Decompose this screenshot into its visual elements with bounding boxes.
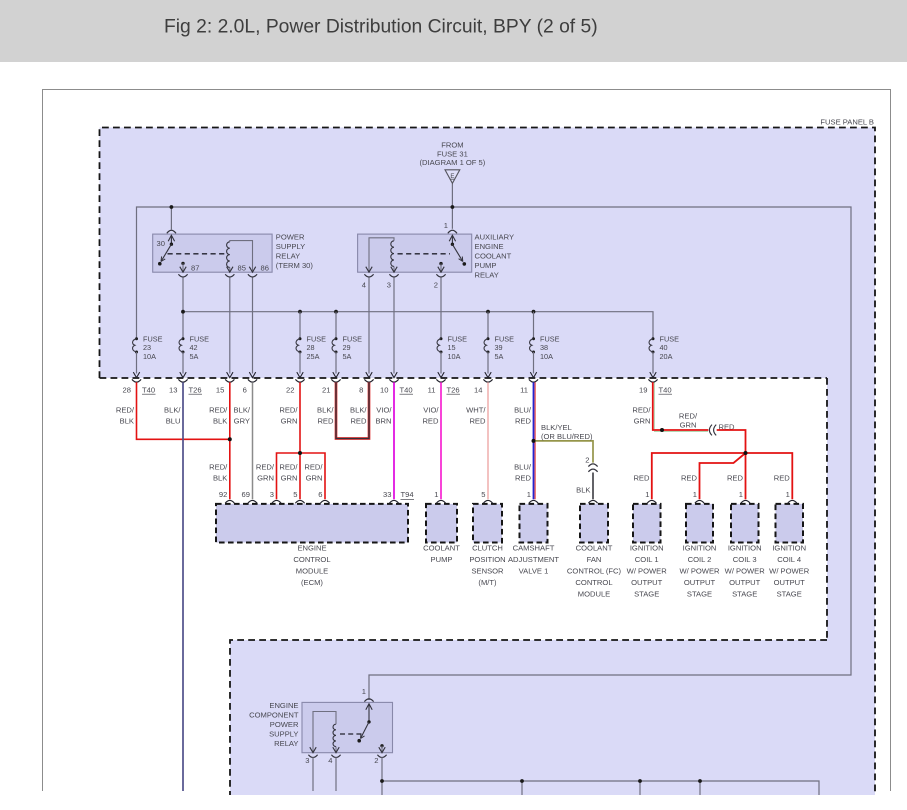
connector pin 14 [474, 372, 493, 394]
svg-text:RED: RED [317, 417, 334, 426]
wire: K2 pin 2 down to fuse 15 [440, 277, 442, 339]
svg-text:PUMP: PUMP [431, 555, 453, 564]
svg-text:6: 6 [318, 490, 322, 499]
svg-text:ENGINE: ENGINE [269, 701, 298, 710]
svg-text:FUSE: FUSE [143, 335, 163, 344]
svg-text:2: 2 [585, 455, 589, 464]
relay K1 switch blade [161, 244, 171, 261]
svg-text:IGNITION: IGNITION [772, 543, 806, 552]
connector pin 13 T26 [169, 372, 202, 394]
wire: fuse 29 feed from link [335, 312, 337, 339]
svg-text:10: 10 [380, 386, 388, 395]
relay K2 switch contact dot [463, 262, 467, 266]
svg-text:42: 42 [190, 343, 198, 352]
wire RED/GRN from pin 22 with splice to ECM pins 3 5 6 [256, 382, 325, 499]
svg-text:5A: 5A [343, 352, 352, 361]
relay K2 pin 1 connector arc [448, 230, 457, 233]
fuse panel B dashed border [100, 128, 876, 796]
svg-text:RED: RED [774, 473, 791, 482]
connector pin 21 [322, 372, 341, 394]
svg-text:SUPPLY: SUPPLY [276, 242, 305, 251]
svg-text:11: 11 [428, 386, 436, 395]
svg-text:RELAY: RELAY [274, 739, 298, 748]
svg-text:VIO/: VIO/ [423, 406, 439, 415]
wire: rail drop at x640 [639, 781, 641, 795]
svg-text:COMPONENT: COMPONENT [249, 711, 299, 720]
svg-text:85: 85 [238, 264, 246, 273]
svg-text:T94: T94 [401, 490, 414, 499]
fuse F42 5A [179, 335, 209, 374]
relay K2 pin 4 exit arrow [366, 267, 372, 273]
svg-text:T40: T40 [400, 386, 413, 395]
svg-text:RED: RED [681, 473, 698, 482]
svg-text:3: 3 [387, 281, 391, 290]
svg-text:5: 5 [481, 490, 485, 499]
svg-text:RED: RED [727, 473, 744, 482]
wire BLK/BLU from pin 13 down to page bottom [164, 382, 183, 791]
svg-text:30: 30 [157, 239, 165, 248]
svg-text:STAGE: STAGE [634, 589, 659, 598]
relay K1 pin 30 connector arc [167, 230, 176, 233]
svg-text:BLK/: BLK/ [317, 406, 334, 415]
svg-text:20A: 20A [660, 352, 673, 361]
relay K1 pin 85 exit arrow [227, 267, 233, 273]
svg-text:FUSE 31: FUSE 31 [437, 149, 468, 158]
svg-text:2: 2 [434, 281, 438, 290]
svg-text:COOLANT: COOLANT [423, 543, 460, 552]
svg-text:MODULE: MODULE [578, 589, 611, 598]
svg-text:11: 11 [520, 386, 528, 395]
connector pin 15 [216, 372, 235, 394]
svg-text:COIL 4: COIL 4 [777, 555, 801, 564]
svg-text:RED/: RED/ [279, 406, 298, 415]
wire: K1 pin 87 down through link row to fuse 42 [182, 277, 184, 339]
svg-text:10A: 10A [540, 352, 553, 361]
svg-text:OUTPUT: OUTPUT [729, 578, 761, 587]
svg-text:BLK: BLK [213, 417, 227, 426]
svg-text:BLU: BLU [166, 417, 181, 426]
svg-text:1: 1 [693, 490, 697, 499]
svg-text:RED/: RED/ [116, 406, 135, 415]
svg-text:10A: 10A [143, 352, 156, 361]
svg-text:W/ POWER: W/ POWER [725, 566, 766, 575]
svg-text:(ECM): (ECM) [301, 578, 323, 587]
inline connector on RED wire [709, 422, 735, 435]
fuse F15 10A [437, 335, 467, 374]
relay K1 pin 86 exit arrow [249, 267, 255, 273]
connector pin 10 T40 [380, 372, 413, 394]
svg-text:15: 15 [216, 386, 224, 395]
relay K3 pin 4 exit arrow [333, 747, 339, 753]
svg-text:GRN: GRN [257, 474, 274, 483]
fuse F40 20A [649, 335, 679, 374]
connector pin 22 [286, 372, 305, 394]
svg-text:10A: 10A [448, 352, 461, 361]
relay K2 coil top link to pin 4 [369, 238, 394, 272]
relay K1 switch contact dot [158, 262, 162, 266]
svg-text:WHT/: WHT/ [466, 406, 486, 415]
svg-text:AUXILIARY: AUXILIARY [475, 233, 515, 242]
node: link junction fuse 39 [486, 310, 490, 314]
relay K1 coil [227, 242, 230, 268]
wire BLK/YEL branch to coolant fan control module [534, 423, 594, 463]
svg-text:33: 33 [383, 490, 391, 499]
svg-text:IGNITION: IGNITION [630, 543, 664, 552]
relay K3 switch arrow up [366, 704, 372, 710]
svg-text:GRN: GRN [634, 417, 651, 426]
svg-text:RELAY: RELAY [276, 252, 300, 261]
connector pin 19 T40 [639, 372, 672, 394]
svg-text:6: 6 [243, 386, 247, 395]
wire: K1 pin 85 down to connector pin 15 [229, 277, 231, 374]
svg-text:RED/: RED/ [632, 406, 651, 415]
wire RED/GRN from pin 19 [632, 382, 708, 431]
ignition coil 3 box [725, 490, 766, 598]
svg-text:FUSE: FUSE [495, 335, 515, 344]
svg-text:SUPPLY: SUPPLY [269, 730, 298, 739]
node: link junction fuse 28 [298, 310, 302, 314]
svg-text:BLK: BLK [576, 486, 590, 495]
node: splice on RED/GRN [298, 451, 302, 455]
svg-text:T40: T40 [659, 386, 672, 395]
svg-text:T26: T26 [447, 386, 460, 395]
fuse panel B fill right strip [827, 378, 875, 640]
connector pin 28 T40 [123, 372, 156, 394]
svg-text:RED: RED [633, 473, 650, 482]
svg-text:5A: 5A [190, 352, 199, 361]
wire: fuse 28 feed from link [299, 312, 301, 339]
node: splice on RED/GRN near pin 19 [660, 428, 664, 432]
svg-text:BLK: BLK [213, 474, 227, 483]
svg-text:87: 87 [191, 264, 199, 273]
svg-text:(M/T): (M/T) [478, 578, 497, 587]
svg-text:1: 1 [444, 221, 448, 230]
wire: relay K1 pin 30 drop from bus [170, 207, 172, 230]
svg-text:GRN: GRN [281, 474, 298, 483]
svg-text:GRN: GRN [281, 417, 298, 426]
svg-text:COIL 2: COIL 2 [688, 555, 712, 564]
relay K1 switch pivot [170, 243, 173, 246]
relay K1 coil bottom to pin 85 [229, 267, 231, 272]
relay K3 switch contact dot [357, 739, 361, 743]
relay K2 switch arrow up [449, 235, 455, 241]
svg-text:69: 69 [242, 490, 250, 499]
svg-text:RED/: RED/ [209, 463, 228, 472]
svg-text:W/ POWER: W/ POWER [627, 566, 668, 575]
coolant fan control module box [567, 500, 622, 598]
svg-text:BLK/YEL: BLK/YEL [541, 423, 572, 432]
inline connector 2 [585, 455, 597, 472]
wire: link row y311.7 feeding fuses, ends down at fuse 40 [183, 312, 653, 339]
svg-text:BLK/: BLK/ [234, 406, 251, 415]
svg-text:BLK/: BLK/ [164, 406, 181, 415]
relay K1 pin 87 terminal dot and stub [181, 262, 184, 265]
relay K1 pin 87 exit arrow [180, 267, 186, 273]
camshaft adjustment valve 1 box [508, 490, 559, 575]
connector pin 6 [243, 372, 257, 394]
svg-text:COOLANT: COOLANT [576, 543, 613, 552]
svg-text:RED/: RED/ [256, 463, 275, 472]
svg-text:19: 19 [639, 386, 647, 395]
svg-text:ADJUSTMENT: ADJUSTMENT [508, 555, 559, 564]
svg-text:STAGE: STAGE [777, 589, 802, 598]
fuse F38 10A [530, 335, 560, 374]
svg-text:14: 14 [474, 386, 482, 395]
svg-text:28: 28 [123, 386, 131, 395]
svg-text:STAGE: STAGE [687, 589, 712, 598]
svg-text:FUSE: FUSE [660, 335, 680, 344]
svg-text:GRY: GRY [234, 417, 250, 426]
svg-text:RED: RED [515, 417, 532, 426]
wire BLK from connector 2 to fan module [576, 473, 593, 500]
node: splice RED distribution [744, 451, 748, 455]
svg-text:(DIAGRAM 1 OF 5): (DIAGRAM 1 OF 5) [419, 158, 485, 167]
wire BLK/RED loop joining pin 21 and pin 8 [317, 382, 369, 438]
svg-text:COIL 1: COIL 1 [635, 555, 659, 564]
relay K2 switch blade [452, 244, 462, 261]
svg-text:POWER: POWER [276, 233, 305, 242]
svg-text:BLK: BLK [120, 417, 134, 426]
ignition coil 4 box [769, 490, 810, 598]
svg-text:40: 40 [660, 343, 668, 352]
header bar [0, 0, 907, 62]
relay K3 coil top link to pin 3 [313, 712, 336, 753]
svg-text:CLUTCH: CLUTCH [472, 543, 503, 552]
svg-text:BRN: BRN [375, 417, 391, 426]
svg-text:CONTROL (FC): CONTROL (FC) [567, 566, 622, 575]
wire: from triangle E down through bus to relay K2 pin 1 [451, 184, 453, 229]
svg-text:W/ POWER: W/ POWER [679, 566, 720, 575]
wire RED/BLK from pin 15 to ECM pin 92 [209, 382, 230, 499]
svg-text:CAMSHAFT: CAMSHAFT [513, 543, 555, 552]
relay K2 pin 3 exit arrow [391, 267, 397, 273]
svg-text:1: 1 [786, 490, 790, 499]
node: rail junction x640 [638, 779, 642, 783]
wire: fuse 39 feed from link [487, 312, 489, 339]
svg-text:ENGINE: ENGINE [297, 543, 326, 552]
svg-text:39: 39 [495, 343, 503, 352]
relay K2 AUXILIARY ENGINE COOLANT PUMP RELAY box [358, 234, 472, 272]
svg-text:POSITION: POSITION [469, 555, 505, 564]
svg-text:(OR BLU/RED): (OR BLU/RED) [541, 432, 593, 441]
clutch position sensor box [469, 490, 505, 587]
fuse panel B fill top band [100, 128, 876, 379]
svg-text:VALVE 1: VALVE 1 [519, 566, 549, 575]
wire: rail drop at x382 [381, 781, 383, 795]
svg-text:FUSE: FUSE [540, 335, 560, 344]
svg-text:W/ POWER: W/ POWER [769, 566, 810, 575]
svg-text:RED: RED [515, 474, 532, 483]
svg-text:5A: 5A [495, 352, 504, 361]
relay K3 ENGINE COMPONENT POWER SUPPLY RELAY box [302, 702, 393, 752]
relay K3 coil bottom to pin 4 [335, 747, 337, 753]
wire WHT/RED from pin 14 to clutch position sensor [466, 382, 488, 499]
node: link junction fuse 29 [334, 310, 338, 314]
svg-text:3: 3 [270, 490, 274, 499]
svg-text:FUSE: FUSE [190, 335, 210, 344]
relay K3 coil [333, 724, 336, 746]
svg-text:1: 1 [739, 490, 743, 499]
fuse F29 5A [332, 335, 362, 374]
fuse panel B fill bottom region [230, 640, 875, 795]
svg-text:22: 22 [286, 386, 294, 395]
svg-text:FUSE: FUSE [343, 335, 363, 344]
svg-text:OUTPUT: OUTPUT [684, 578, 716, 587]
svg-text:IGNITION: IGNITION [728, 543, 762, 552]
svg-text:VIO/: VIO/ [376, 406, 392, 415]
fuse F39 5A [484, 335, 514, 374]
relay K3 pin 2 exit arrow [379, 747, 385, 753]
wire: K3 pin 2 down and distribution rail [382, 757, 819, 795]
svg-text:29: 29 [343, 343, 351, 352]
svg-text:IGNITION: IGNITION [683, 543, 717, 552]
connector pin 11 T26 [428, 372, 460, 394]
svg-text:CONTROL: CONTROL [575, 578, 612, 587]
wire: rail drop at x700 [699, 781, 701, 795]
svg-text:BLU/: BLU/ [514, 463, 532, 472]
svg-text:FUSE: FUSE [307, 335, 327, 344]
svg-text:SENSOR: SENSOR [471, 566, 504, 575]
svg-text:23: 23 [143, 343, 151, 352]
svg-text:FUSE PANEL B: FUSE PANEL B [820, 118, 874, 127]
relay K2 pin 2 exit arrow [438, 267, 444, 273]
svg-text:RELAY: RELAY [475, 271, 499, 280]
svg-text:PUMP: PUMP [475, 261, 497, 270]
svg-text:COIL 3: COIL 3 [733, 555, 757, 564]
wire RED/BLK from pin 28 to splice [116, 382, 230, 439]
svg-text:MODULE: MODULE [296, 566, 329, 575]
relay K2 coil [391, 241, 394, 267]
ignition coil 1 box [627, 490, 668, 598]
svg-text:3: 3 [305, 756, 309, 765]
svg-text:1: 1 [527, 490, 531, 499]
svg-text:RED: RED [350, 417, 367, 426]
svg-text:FAN: FAN [587, 555, 602, 564]
wire: K3 pin 3 down [312, 757, 314, 791]
relay K2 coil bottom to pin 3 [393, 266, 395, 272]
svg-text:RED/: RED/ [209, 406, 228, 415]
svg-text:86: 86 [261, 264, 269, 273]
wire RED distribution to ignition coils [633, 430, 792, 499]
svg-text:21: 21 [322, 386, 330, 395]
svg-text:1: 1 [362, 687, 366, 696]
relay K3 pin 2 terminal dot and stub [380, 744, 383, 747]
wire VIO/BRN from pin 10 to ECM pin 33 [375, 382, 394, 499]
note: FROM FUSE 31 (DIAGRAM 1 OF 5) [419, 141, 485, 168]
relay K1 coil top link to pin 86 [230, 241, 253, 273]
svg-text:13: 13 [169, 386, 177, 395]
svg-text:(TERM 30): (TERM 30) [276, 261, 314, 270]
node: rail junction x382 [380, 779, 384, 783]
svg-text:1: 1 [645, 490, 649, 499]
fuse F23 10A [133, 335, 163, 374]
svg-text:POWER: POWER [270, 720, 299, 729]
svg-text:OUTPUT: OUTPUT [774, 578, 806, 587]
svg-text:ENGINE: ENGINE [475, 242, 504, 251]
svg-text:E: E [450, 173, 454, 180]
connector pin 11b [520, 372, 538, 394]
svg-text:28: 28 [307, 343, 315, 352]
relay K2 actuator dashed link [398, 253, 451, 255]
node: rail junction x522 [520, 779, 524, 783]
svg-text:4: 4 [328, 756, 332, 765]
svg-text:GRN: GRN [306, 474, 323, 483]
svg-text:RED/: RED/ [279, 463, 298, 472]
svg-text:T26: T26 [189, 386, 202, 395]
svg-text:Fig 2: 2.0L, Power Distributio: Fig 2: 2.0L, Power Distribution Circuit,… [164, 17, 598, 38]
node: splice of pin 28 and pin 15 wires [228, 437, 232, 441]
svg-text:OUTPUT: OUTPUT [631, 578, 663, 587]
svg-text:RED/: RED/ [679, 412, 698, 421]
relay K1 POWER SUPPLY RELAY box [153, 234, 272, 272]
svg-text:BLU/: BLU/ [514, 406, 532, 415]
svg-text:15: 15 [448, 343, 456, 352]
off-page triangle E [445, 170, 460, 184]
ignition coil 2 box [679, 490, 720, 598]
ECM engine control module box [216, 490, 414, 587]
node: bus junction at K2 pin 1 [451, 205, 455, 209]
wire: main bus from fuse 23 top, along y207, down right side x851, along y675 to bottom relay pin 1 [137, 207, 852, 700]
svg-text:COOLANT: COOLANT [475, 252, 512, 261]
relay K3 pin 1 connector arc [364, 699, 373, 702]
wire: K3 pin 4 down [335, 757, 337, 791]
node: link junction fuse 38 [532, 310, 536, 314]
svg-text:RED: RED [469, 417, 486, 426]
svg-text:4: 4 [362, 281, 366, 290]
svg-text:RED/: RED/ [304, 463, 323, 472]
wire: rail drop at x522 [521, 781, 523, 795]
relay K3 switch pivot [367, 720, 370, 723]
svg-text:GRN: GRN [680, 420, 697, 429]
wire: fuse 38 feed from link [533, 312, 535, 339]
svg-text:T40: T40 [142, 386, 155, 395]
connector pin 8 [359, 372, 373, 394]
node: rail junction x700 [698, 779, 702, 783]
wire: K2 pin 4 down to connector pin 8 [368, 277, 370, 374]
relay K1 switch arrow up [168, 235, 174, 241]
svg-text:25A: 25A [307, 352, 320, 361]
relay K3 switch blade [361, 722, 370, 739]
svg-text:RED: RED [422, 417, 439, 426]
wire: K1 pin 86 down to connector pin 6 [252, 277, 254, 374]
relay K2 switch pivot [451, 243, 454, 246]
wire: K2 pin 3 down to connector pin 10 [393, 277, 395, 374]
coolant pump box [423, 490, 460, 564]
svg-text:BLK/: BLK/ [350, 406, 367, 415]
svg-text:1: 1 [434, 490, 438, 499]
node: bus junction at K1 pin 30 [170, 205, 174, 209]
relay K3 actuator dashed link [340, 733, 362, 735]
svg-text:FROM: FROM [441, 141, 463, 150]
relay K1 actuator dashed link [168, 253, 227, 255]
svg-text:FUSE: FUSE [448, 335, 468, 344]
svg-text:92: 92 [219, 490, 227, 499]
node: splice BLU/RED to BLK/YEL [532, 439, 536, 443]
svg-text:2: 2 [374, 756, 378, 765]
svg-text:5: 5 [293, 490, 297, 499]
relay K3 pin 3 exit arrow [310, 747, 316, 753]
svg-text:CONTROL: CONTROL [293, 555, 330, 564]
wire BLK/GRY from pin 6 to ECM pin 69 [234, 382, 253, 499]
relay K2 pin 2 terminal dot and stub [439, 262, 442, 265]
fuse F28 25A [296, 335, 326, 374]
svg-text:STAGE: STAGE [732, 589, 757, 598]
svg-text:8: 8 [359, 386, 363, 395]
wire VIO/RED from pin 11 to coolant pump [422, 382, 441, 499]
wire BLU/RED from pin 11b to camshaft adjustment valve 1 [514, 382, 535, 499]
node: link junction fuse 42 [181, 310, 185, 314]
svg-text:38: 38 [540, 343, 548, 352]
